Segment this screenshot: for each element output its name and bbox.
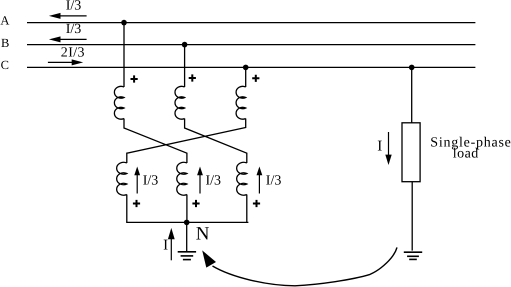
wire L6 to neutral bus (246, 195, 248, 223)
polarity mark + winding L1 (131, 75, 138, 82)
winding L2 (upper, phase B) (175, 86, 185, 119)
current arrow I/3 on phase A (49, 13, 87, 19)
wire L5 to neutral bus (186, 195, 188, 223)
wire node N to ground (186, 222, 188, 251)
wire from node A down to winding L1 (123, 23, 125, 87)
current arrow I/3 winding L6 (257, 167, 263, 194)
current arrow 2I/3 on phase C (48, 59, 83, 65)
polarity mark + winding L2 (189, 74, 196, 81)
winding L6 (lower, right) (237, 162, 247, 195)
wire phase line A (27, 22, 475, 24)
resistor load box (402, 123, 420, 182)
wire zigzag L3 to L4 (127, 119, 246, 164)
svg-text:N: N (196, 224, 210, 245)
wire phase line C (27, 66, 475, 68)
svg-text:2I/3: 2I/3 (61, 45, 85, 60)
winding L3 (upper, phase C) (236, 86, 246, 119)
polarity mark + winding L3 (252, 75, 259, 82)
wire neutral bus (126, 221, 248, 223)
ground symbol at load (404, 252, 422, 259)
wire from node B down to winding L2 (184, 45, 186, 87)
polarity mark + winding L4 (133, 200, 140, 207)
wire zigzag L1 to L5 (124, 119, 187, 164)
current arrow I at load (385, 132, 391, 165)
current arrow I/3 winding L5 (197, 167, 203, 194)
node C load tap junction dot (409, 65, 415, 71)
svg-text:I: I (377, 138, 382, 154)
node B junction dot (182, 42, 188, 48)
wire from node C down to winding L3 (245, 67, 247, 87)
wire load to ground (411, 182, 413, 251)
node C junction dot (243, 65, 249, 71)
winding L4 (lower, left) (117, 162, 127, 195)
winding L1 (upper, phase A) (114, 86, 124, 119)
svg-text:I/3: I/3 (66, 22, 82, 37)
svg-text:I/3: I/3 (206, 173, 222, 188)
wire phase line B (27, 44, 475, 46)
node N junction dot (184, 220, 190, 226)
svg-text:I/3: I/3 (66, 0, 82, 14)
wire L4 to neutral bus (126, 195, 128, 223)
svg-text:C: C (1, 58, 9, 72)
svg-text:B: B (1, 36, 9, 50)
ground symbol at N (178, 252, 196, 260)
svg-text:load: load (453, 147, 479, 162)
current arrow I at neutral (168, 228, 175, 260)
curved arrow from load ground to neutral ground (213, 247, 398, 285)
svg-text:I: I (163, 238, 168, 254)
current arrow I/3 winding L4 (134, 167, 140, 194)
current arrow I/3 on phase B (49, 36, 87, 42)
svg-text:I/3: I/3 (143, 173, 159, 188)
wire zigzag L2 to L6 (185, 119, 247, 164)
svg-text:I/3: I/3 (266, 173, 282, 188)
wire node C tap to load (411, 67, 413, 122)
svg-text:A: A (0, 14, 9, 28)
polarity mark + winding L5 (192, 200, 199, 207)
winding L5 (lower, middle) (177, 162, 187, 195)
polarity mark + winding L6 (253, 200, 260, 207)
node A junction dot (121, 20, 127, 26)
